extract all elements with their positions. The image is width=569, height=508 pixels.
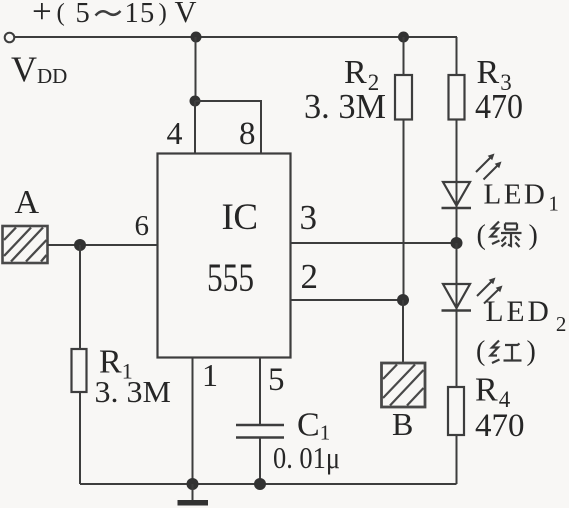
LED LED1 xyxy=(442,182,472,208)
wire LED1 to pin3 node xyxy=(456,208,458,243)
svg-text:2: 2 xyxy=(301,257,319,296)
wire R1 to bottom rail xyxy=(79,392,81,484)
svg-text:3: 3 xyxy=(300,198,318,237)
resistor R3 xyxy=(449,75,465,120)
ground xyxy=(178,484,209,503)
wire R2 down to pin2 junction xyxy=(403,120,405,301)
wire pin1 down xyxy=(192,358,194,485)
svg-text:5: 5 xyxy=(76,0,90,29)
glyph red character xyxy=(491,341,522,364)
wire R4 to bottom rail xyxy=(456,435,458,484)
svg-text:B: B xyxy=(392,406,413,442)
svg-text:IC: IC xyxy=(222,197,258,238)
wire pin5 down to C1 xyxy=(259,358,261,425)
wire pin6 from A xyxy=(48,244,158,246)
wire pin3 xyxy=(291,242,457,244)
svg-text:): ) xyxy=(159,0,167,27)
svg-text:0. 01μ: 0. 01μ xyxy=(273,440,340,475)
wire pin8 branch xyxy=(195,101,261,154)
svg-text:): ) xyxy=(529,220,538,251)
wire A junction down to R1 xyxy=(79,245,81,349)
svg-text:3. 3M: 3. 3M xyxy=(304,87,386,126)
svg-text:470: 470 xyxy=(475,87,523,126)
svg-text:1: 1 xyxy=(125,0,139,29)
svg-text:4: 4 xyxy=(167,115,183,151)
wire R2 top lead xyxy=(403,37,405,75)
svg-text:(: ( xyxy=(477,220,486,251)
svg-text:6: 6 xyxy=(135,210,150,242)
node pin1 ground junction xyxy=(187,478,199,490)
svg-text:470: 470 xyxy=(475,408,525,444)
resistor R1 xyxy=(72,349,87,392)
wire pin4/8 branch vertical xyxy=(195,37,197,101)
resistor R2 xyxy=(395,75,412,120)
IC U1 555 timer box xyxy=(158,154,291,358)
label supply +(5~15)V xyxy=(32,0,197,31)
wire pin2 xyxy=(291,299,404,301)
wire C1 to bottom rail xyxy=(259,438,261,484)
electrode A hatched box xyxy=(3,226,48,263)
label LED1 color green xyxy=(477,220,538,251)
node A junction xyxy=(74,239,86,251)
svg-text:V: V xyxy=(175,0,197,29)
node pin3 junction xyxy=(451,237,463,249)
wire node to LED2 xyxy=(456,243,458,311)
svg-text:3. 3M: 3. 3M xyxy=(95,374,172,409)
wire R3 to LED1 xyxy=(456,120,458,209)
wire LED2 to R4 xyxy=(456,311,458,388)
svg-text:555: 555 xyxy=(207,255,254,300)
node C1 bottom junction xyxy=(254,478,266,490)
node top junction pin4 branch xyxy=(191,32,202,43)
svg-text:8: 8 xyxy=(239,116,256,152)
resistor R4 xyxy=(448,387,464,435)
LED LED2 xyxy=(442,284,472,311)
wire top rail corner down to R3 xyxy=(456,37,458,75)
wire bottom rail xyxy=(80,483,457,485)
wire pin4 down to IC xyxy=(194,101,196,154)
svg-text:A: A xyxy=(15,184,40,221)
node top junction R2 branch xyxy=(398,32,409,43)
wire top supply rail xyxy=(15,36,458,38)
node pin4/pin8 split junction xyxy=(190,96,201,107)
svg-text:1: 1 xyxy=(202,357,218,393)
svg-text:): ) xyxy=(527,336,536,367)
label LED2 color red xyxy=(476,336,536,367)
svg-text:(: ( xyxy=(476,336,485,367)
LED2 light arrows xyxy=(477,278,503,304)
electrode B hatched box xyxy=(382,363,426,407)
capacitor C1 xyxy=(236,425,284,438)
terminal VDD xyxy=(5,33,15,43)
node pin2 junction xyxy=(397,294,409,306)
svg-text:5: 5 xyxy=(268,362,285,398)
glyph green character xyxy=(491,222,522,248)
svg-text:+: + xyxy=(32,0,52,31)
svg-text:(: ( xyxy=(57,0,65,27)
wire junction down to B xyxy=(402,300,404,363)
LED1 light arrows xyxy=(476,154,502,180)
svg-text:5: 5 xyxy=(140,0,154,29)
